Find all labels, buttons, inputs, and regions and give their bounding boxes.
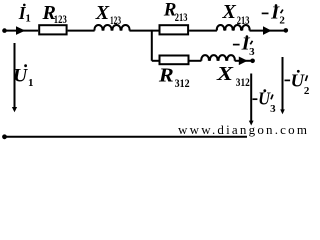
svg-text:X: X [222, 1, 237, 23]
svg-text:2: 2 [279, 15, 285, 27]
svg-text:1: 1 [25, 13, 31, 25]
svg-text:U: U [291, 70, 305, 90]
svg-text:1: 1 [28, 77, 34, 89]
svg-text:U: U [13, 65, 28, 86]
svg-text:123: 123 [110, 13, 121, 27]
svg-text:3: 3 [270, 103, 276, 115]
svg-text:213: 213 [237, 13, 250, 27]
svg-text:www.diangon.com: www.diangon.com [178, 122, 307, 137]
svg-text:312: 312 [236, 75, 250, 89]
svg-text:R: R [158, 64, 174, 86]
svg-text:X: X [216, 63, 234, 85]
svg-text:2: 2 [304, 85, 310, 97]
svg-text:312: 312 [175, 76, 190, 90]
svg-text:123: 123 [54, 12, 67, 26]
svg-text:3: 3 [249, 46, 255, 58]
svg-text:X: X [95, 2, 110, 24]
svg-text:213: 213 [175, 10, 188, 24]
